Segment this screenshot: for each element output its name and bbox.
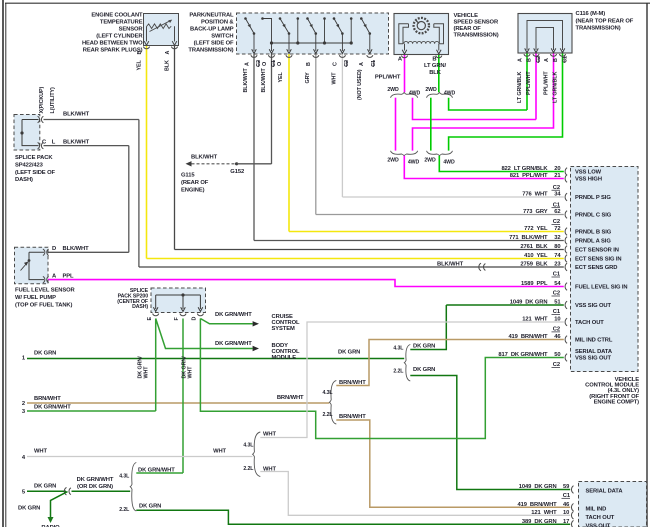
svg-text:VEHICLE: VEHICLE bbox=[454, 13, 479, 19]
svg-text:WHT: WHT bbox=[187, 366, 193, 379]
wire BLK/WHT vertical to fuel sensor bbox=[128, 146, 130, 253]
wire 817 DK GRN/WHT SP200 pin D to VSS SIG OUT pin 50 bbox=[200, 319, 563, 439]
svg-text:822 LT GRN/BLK: 822 LT GRN/BLK bbox=[501, 166, 548, 172]
wire 1049 DK GRN 2.2L to SERIAL DATA pin 59 bbox=[410, 376, 570, 490]
svg-text:L(UTILITY): L(UTILITY) bbox=[50, 87, 56, 114]
svg-text:PPL/WHT: PPL/WHT bbox=[375, 75, 401, 81]
connector pin D fuel sensor bbox=[43, 249, 49, 255]
coil VSS bbox=[404, 41, 439, 43]
switch blade PNP bbox=[334, 19, 342, 34]
wire 1 DK GRN from left bbox=[27, 358, 404, 360]
ECT lead pin A bbox=[174, 26, 176, 41]
svg-text:WHT: WHT bbox=[143, 366, 149, 379]
svg-text:PRNDL A SIG: PRNDL A SIG bbox=[575, 239, 611, 245]
svg-text:O: O bbox=[262, 62, 268, 66]
svg-text:DK GRN/WHT: DK GRN/WHT bbox=[215, 312, 252, 318]
brace 2WD/4WD split PPL/WHT bbox=[391, 93, 418, 98]
svg-text:DK GRN: DK GRN bbox=[413, 367, 435, 373]
pickup bracket right VSS bbox=[434, 24, 444, 44]
svg-text:2.2L: 2.2L bbox=[243, 466, 254, 472]
svg-text:771 BLK/WHT: 771 BLK/WHT bbox=[509, 235, 548, 241]
engine coolant temperature sensor box bbox=[144, 14, 179, 46]
svg-text:BRN/WHT: BRN/WHT bbox=[277, 395, 304, 401]
svg-text:DK GRN/WHT: DK GRN/WHT bbox=[215, 341, 252, 347]
svg-text:773 GRY: 773 GRY bbox=[523, 209, 548, 215]
svg-text:419 BRN/WHT: 419 BRN/WHT bbox=[518, 502, 558, 508]
wire BLK/WHT to fuel sensor pin D bbox=[48, 251, 129, 253]
wire 419 BRN/WHT 4.3L to MIL IND CTRL pin 46 bbox=[336, 340, 564, 386]
splice pack SP422/423 box bbox=[14, 115, 40, 151]
svg-text:L: L bbox=[52, 139, 56, 145]
wire 1049 DK GRN into VCM bbox=[446, 304, 564, 306]
pin terminal PNP bbox=[313, 55, 319, 57]
svg-text:BACK-UP LAMP: BACK-UP LAMP bbox=[190, 27, 234, 33]
svg-text:W/ FUEL PUMP: W/ FUEL PUMP bbox=[15, 295, 56, 301]
wire 1589 PPL fuel level signal to pin 54 bbox=[48, 280, 564, 287]
svg-text:62: 62 bbox=[554, 209, 560, 215]
svg-text:TRANSMISSION): TRANSMISSION) bbox=[576, 26, 621, 32]
svg-text:DK GRN/WHT: DK GRN/WHT bbox=[34, 404, 71, 410]
svg-text:A: A bbox=[52, 273, 57, 279]
pin A arrow ECT bbox=[172, 41, 177, 45]
svg-text:A: A bbox=[244, 62, 250, 66]
pin A terminal ECT bbox=[171, 47, 177, 49]
svg-text:WHT: WHT bbox=[213, 448, 226, 454]
svg-text:G115: G115 bbox=[181, 173, 195, 179]
wire 773 GRY to PRNDL C SIG pin 62 bbox=[316, 214, 564, 216]
pin terminal PNP bbox=[251, 55, 257, 57]
svg-text:D: D bbox=[52, 246, 56, 252]
svg-text:2.2L: 2.2L bbox=[119, 507, 130, 513]
page left border inner bbox=[5, 3, 7, 527]
svg-text:LT GRN/BLK: LT GRN/BLK bbox=[517, 72, 523, 103]
arrow to radio bbox=[48, 517, 54, 523]
wire LT GRN/BLK VSS pin B bbox=[438, 55, 440, 93]
wire BLK/WHT splice pack utility feed bbox=[44, 145, 129, 147]
splice pack SP200 box bbox=[151, 288, 206, 313]
splice on wire 5 bbox=[64, 487, 71, 495]
wire BLK/WHT vertical to ECT SENS GRD bbox=[138, 120, 140, 268]
svg-text:DK GRN: DK GRN bbox=[34, 351, 56, 357]
svg-text:50: 50 bbox=[554, 352, 560, 358]
svg-text:PARK/NEUTRAL: PARK/NEUTRAL bbox=[189, 13, 234, 19]
svg-text:389 DK GRN: 389 DK GRN bbox=[522, 519, 557, 525]
brace 4.3L/2.2L split DK GRN bbox=[404, 345, 410, 382]
instrument cluster module box bbox=[579, 482, 647, 527]
gear symbol VSS bbox=[414, 18, 429, 33]
wire BLK/WHT dashed to G152 bbox=[192, 163, 237, 165]
wire BLK/WHT G152 to switch wire bbox=[237, 163, 272, 165]
svg-text:1049 DK GRN: 1049 DK GRN bbox=[510, 300, 548, 306]
svg-text:817 DK GRN/WHT: 817 DK GRN/WHT bbox=[498, 352, 548, 358]
pin B arrow ECT bbox=[144, 41, 149, 45]
brace 4.3L/2.2L split WHT bbox=[253, 432, 261, 477]
wire DK GRN/WHT 4.3L up to SP200 pin F bbox=[136, 472, 183, 474]
jumper loop outer C116 bbox=[527, 21, 563, 51]
arrow to cruise control system bbox=[253, 321, 259, 326]
svg-text:1589 PPL: 1589 PPL bbox=[521, 281, 548, 287]
svg-text:F: F bbox=[174, 317, 180, 321]
pin B terminal ECT bbox=[143, 47, 149, 49]
wire 5 DK GRN from left bbox=[27, 490, 66, 492]
svg-text:776 WHT: 776 WHT bbox=[522, 192, 548, 198]
svg-text:B: B bbox=[306, 62, 312, 66]
junction G152 bbox=[235, 162, 238, 165]
svg-text:ECT SENSOR IN: ECT SENSOR IN bbox=[575, 248, 619, 254]
svg-text:CONTROL: CONTROL bbox=[272, 349, 301, 355]
svg-text:B: B bbox=[527, 58, 533, 62]
connector utility SP422/423 bbox=[38, 142, 44, 148]
wire BLK/WHT PNP pin O to G152 bbox=[271, 54, 273, 164]
svg-text:ECT SENS GRD: ECT SENS GRD bbox=[575, 265, 617, 271]
svg-text:ECT SENS SIG IN: ECT SENS SIG IN bbox=[575, 257, 622, 263]
wire BLK/WHT splice pack pickup feed bbox=[44, 119, 139, 121]
svg-text:TRANSMISSION): TRANSMISSION) bbox=[188, 48, 233, 54]
svg-text:(TOP OF FUEL TANK): (TOP OF FUEL TANK) bbox=[15, 302, 73, 308]
svg-text:(LEFT SIDE OF: (LEFT SIDE OF bbox=[194, 41, 234, 47]
svg-text:5: 5 bbox=[22, 490, 26, 496]
switch common terminal PNP pin O bbox=[261, 17, 264, 20]
svg-text:BLK/WHT: BLK/WHT bbox=[243, 68, 249, 93]
svg-text:4WD: 4WD bbox=[409, 91, 421, 97]
wiper arm fuel sensor bbox=[21, 263, 28, 271]
svg-text:TACH OUT: TACH OUT bbox=[586, 515, 615, 521]
connector pin A fuel sensor bbox=[43, 276, 49, 282]
svg-text:4.3L: 4.3L bbox=[393, 346, 404, 352]
svg-text:C: C bbox=[42, 139, 47, 145]
wire DK GRN branch to radio bbox=[51, 492, 68, 518]
svg-text:CRUISE: CRUISE bbox=[272, 314, 294, 320]
svg-text:21: 21 bbox=[554, 173, 561, 179]
wire WHT PNP pin C vertical bbox=[341, 54, 343, 197]
svg-text:TEMPERATURE: TEMPERATURE bbox=[100, 20, 143, 26]
svg-text:23: 23 bbox=[554, 262, 561, 268]
svg-text:HEAD BETWEEN TWO: HEAD BETWEEN TWO bbox=[82, 41, 143, 47]
svg-text:C: C bbox=[333, 62, 339, 66]
svg-text:20: 20 bbox=[554, 166, 560, 172]
bus bar PNP switch bbox=[272, 42, 352, 44]
svg-text:C2: C2 bbox=[536, 56, 542, 63]
svg-text:121 WHT: 121 WHT bbox=[522, 317, 548, 323]
wire 389 DK GRN 2.2L to VSS OUT pin 17 bbox=[136, 510, 570, 524]
svg-text:BLK/WHT: BLK/WHT bbox=[63, 112, 90, 118]
svg-text:821 PPL/WHT: 821 PPL/WHT bbox=[510, 173, 548, 179]
wire YEL PNP pin O vertical bbox=[288, 54, 290, 232]
wire 410 YEL to ECT SENS SIG IN pin 74 bbox=[147, 258, 564, 260]
wire 121 WHT 4.3L to TACH OUT pin 10 bbox=[260, 322, 564, 438]
svg-text:10: 10 bbox=[554, 317, 560, 323]
svg-text:DASH): DASH) bbox=[15, 177, 33, 183]
svg-text:ENGINE COMPT): ENGINE COMPT) bbox=[594, 400, 640, 406]
svg-text:MIL IND: MIL IND bbox=[586, 507, 607, 513]
pin terminal PNP bbox=[286, 55, 292, 57]
svg-text:(NOT USED): (NOT USED) bbox=[357, 69, 363, 100]
wire BLK/WHT PNP pin A vertical bbox=[253, 54, 255, 241]
svg-text:(REAR OF: (REAR OF bbox=[181, 180, 209, 186]
gear notch VSS bbox=[416, 21, 419, 24]
wire GRY PNP pin B vertical bbox=[315, 54, 317, 215]
svg-text:BLK/WHT: BLK/WHT bbox=[437, 261, 464, 267]
connector C116 box bbox=[518, 14, 572, 54]
svg-text:17: 17 bbox=[563, 519, 569, 525]
svg-text:PRNDL C SIG: PRNDL C SIG bbox=[575, 213, 612, 219]
svg-text:410 YEL: 410 YEL bbox=[524, 253, 548, 259]
svg-text:ENGINE): ENGINE) bbox=[181, 188, 205, 194]
svg-text:SWITCH: SWITCH bbox=[211, 34, 233, 40]
svg-text:SP422/423: SP422/423 bbox=[15, 162, 44, 168]
svg-text:A: A bbox=[359, 62, 365, 66]
junction SP422/423 bbox=[20, 131, 23, 134]
brace 2WD/4WD split LT GRN/BLK bbox=[427, 93, 453, 98]
connector pickup SP422/423 bbox=[38, 116, 44, 122]
wire PPL/WHT 2WD branch bbox=[395, 98, 397, 151]
pickup bracket left VSS bbox=[399, 24, 409, 44]
page top border bbox=[5, 2, 650, 4]
wire 2759 BLK to ECT SENS GRD pin 23 bbox=[139, 266, 564, 268]
svg-text:CONTROL: CONTROL bbox=[272, 320, 301, 326]
svg-text:2.2L: 2.2L bbox=[323, 412, 334, 418]
thermistor zigzag ECT bbox=[147, 24, 172, 29]
svg-text:46: 46 bbox=[563, 502, 570, 508]
svg-text:BLK/WHT: BLK/WHT bbox=[63, 246, 90, 252]
svg-text:FUEL LEVEL SIG IN: FUEL LEVEL SIG IN bbox=[575, 285, 628, 291]
wire LT GRN/BLK C116 pin A drop bbox=[526, 53, 528, 110]
wire DK GRN/WHT to cruise control bbox=[200, 319, 252, 324]
svg-text:SPEED SENSOR: SPEED SENSOR bbox=[454, 20, 499, 26]
pin terminal PNP bbox=[367, 55, 373, 57]
junction SP200 bbox=[181, 293, 184, 296]
svg-text:C116 (M-M): C116 (M-M) bbox=[576, 11, 606, 17]
svg-text:DK GRN: DK GRN bbox=[338, 350, 360, 356]
svg-text:BLK: BLK bbox=[429, 70, 442, 76]
wire 776 WHT to PRNDL P SIG pin 34 bbox=[342, 196, 563, 198]
bus riser PNP bbox=[350, 19, 352, 44]
svg-text:BLK/WHT: BLK/WHT bbox=[63, 139, 90, 145]
svg-text:LT GRN/: LT GRN/ bbox=[424, 63, 447, 69]
svg-text:(LEFT SIDE OF: (LEFT SIDE OF bbox=[15, 170, 55, 176]
svg-text:2759 BLK: 2759 BLK bbox=[520, 262, 548, 268]
switch blade PNP bbox=[280, 19, 289, 34]
vehicle speed sensor box bbox=[394, 14, 449, 55]
svg-text:A: A bbox=[165, 51, 171, 55]
svg-text:BRN/WHT: BRN/WHT bbox=[339, 414, 366, 420]
svg-text:(OR DK GRN): (OR DK GRN) bbox=[77, 484, 113, 490]
svg-text:B: B bbox=[432, 57, 436, 63]
svg-text:SYSTEM: SYSTEM bbox=[272, 326, 296, 332]
svg-text:PPL/WHT: PPL/WHT bbox=[543, 71, 549, 95]
VSS pin A lead bbox=[404, 44, 406, 51]
svg-text:59: 59 bbox=[563, 484, 570, 490]
sender element fuel level sensor bbox=[29, 252, 44, 279]
svg-text:SERIAL DATA: SERIAL DATA bbox=[575, 349, 613, 355]
wire 772 YEL to PRNDL B SIG pin 72 bbox=[289, 231, 564, 233]
svg-text:VSS HIGH: VSS HIGH bbox=[575, 177, 602, 183]
svg-text:DASH): DASH) bbox=[132, 304, 148, 310]
svg-text:4WD: 4WD bbox=[408, 160, 420, 166]
svg-text:FUEL LEVEL SENSOR: FUEL LEVEL SENSOR bbox=[15, 288, 76, 294]
svg-text:VSS OUT: VSS OUT bbox=[586, 524, 611, 527]
connector pin F SP200 bbox=[180, 314, 186, 316]
svg-text:46: 46 bbox=[554, 334, 561, 340]
wire 2761 BLK to ECT SENSOR IN pin 80 bbox=[175, 249, 564, 251]
svg-text:GRY: GRY bbox=[305, 72, 311, 84]
svg-text:X(PICKUP): X(PICKUP) bbox=[39, 87, 45, 114]
page right border bbox=[646, 3, 648, 527]
svg-text:2.2L: 2.2L bbox=[393, 368, 404, 374]
svg-text:4WD: 4WD bbox=[443, 160, 455, 166]
arrow to body control module bbox=[253, 346, 259, 351]
switch blade PNP bbox=[361, 19, 370, 34]
bus junction PNP bbox=[270, 41, 273, 44]
fuel level sensor box bbox=[15, 247, 49, 283]
svg-text:ENGINE COOLANT: ENGINE COOLANT bbox=[91, 13, 143, 19]
svg-text:WHT: WHT bbox=[332, 72, 338, 85]
bus riser PNP bbox=[297, 19, 299, 44]
svg-text:G152: G152 bbox=[230, 169, 244, 175]
svg-text:VSS SIG OUT: VSS SIG OUT bbox=[575, 303, 612, 309]
svg-text:4.3L: 4.3L bbox=[323, 390, 334, 396]
wire 822 LT GRN/BLK to VSS LOW pin 20 bbox=[439, 156, 564, 172]
svg-text:BRN/WHT: BRN/WHT bbox=[34, 396, 61, 402]
wire DK GRN/WHT SP200 pin F vertical bbox=[182, 319, 184, 474]
wiper contact fuel sensor bbox=[28, 259, 31, 262]
svg-text:VSS SIG OUT: VSS SIG OUT bbox=[575, 356, 612, 362]
wire 419 BRN/WHT 2.2L to MIL IND pin 46 bbox=[336, 420, 570, 507]
svg-text:80: 80 bbox=[554, 244, 560, 250]
thermistor arrow ECT bbox=[150, 21, 171, 32]
svg-text:1049 DK GRN: 1049 DK GRN bbox=[519, 484, 557, 490]
svg-text:2WD: 2WD bbox=[387, 158, 399, 164]
svg-text:TACH OUT: TACH OUT bbox=[575, 320, 604, 326]
pin B terminal VSS bbox=[436, 56, 442, 58]
svg-text:3: 3 bbox=[22, 409, 26, 415]
svg-text:A: A bbox=[544, 58, 550, 62]
jumper loop inner C116 bbox=[536, 28, 554, 51]
wire PPL/WHT C116 pin B drop bbox=[535, 53, 537, 120]
brace 4.3L/2.2L split BRN/WHT bbox=[329, 381, 336, 425]
page left border outer bbox=[2, 0, 4, 527]
VSS pin B lead bbox=[438, 44, 440, 51]
svg-text:A: A bbox=[518, 58, 524, 62]
svg-text:2: 2 bbox=[22, 401, 25, 407]
svg-text:C1: C1 bbox=[371, 60, 377, 67]
wire DK GRN/WHT to body control module bbox=[156, 319, 253, 349]
wire 3 DK GRN/WHT from left bbox=[27, 410, 156, 412]
svg-text:4.3L: 4.3L bbox=[119, 473, 130, 479]
switch blade PNP bbox=[308, 19, 316, 34]
svg-text:72: 72 bbox=[554, 226, 560, 232]
svg-text:10: 10 bbox=[563, 510, 569, 516]
svg-text:74: 74 bbox=[554, 253, 561, 259]
wire PPL/WHT 4WD branch to C116 pin B bbox=[413, 98, 537, 120]
wire LT GRN/BLK 2WD branch bbox=[430, 98, 432, 151]
wire 821 PPL/WHT to VSS HIGH pin 21 bbox=[404, 156, 564, 179]
wire 2 BRN/WHT from left bbox=[27, 402, 329, 404]
splice bus SP200 bbox=[156, 295, 201, 309]
brace 2WD/4WD merge LT GRN/BLK bbox=[427, 151, 453, 156]
svg-text:O: O bbox=[277, 62, 283, 66]
svg-text:DK GRN: DK GRN bbox=[18, 506, 40, 512]
wire 1049 DK GRN 4.3L to VSS SIG OUT pin 51 bbox=[410, 305, 446, 350]
svg-text:DK GRN: DK GRN bbox=[139, 504, 161, 510]
ground G115 arrow bbox=[186, 161, 192, 166]
pin A terminal VSS bbox=[401, 56, 407, 58]
svg-text:BLK: BLK bbox=[164, 60, 170, 71]
svg-text:E: E bbox=[147, 317, 153, 321]
svg-text:DK GRN: DK GRN bbox=[413, 344, 435, 350]
svg-text:32: 32 bbox=[554, 235, 560, 241]
svg-text:1: 1 bbox=[22, 356, 26, 362]
svg-text:YEL: YEL bbox=[136, 60, 142, 71]
wire LT GRN/BLK return from C116 pin B bbox=[449, 53, 563, 151]
svg-text:B: B bbox=[553, 58, 559, 62]
svg-text:2761 BLK: 2761 BLK bbox=[520, 244, 548, 250]
svg-text:REAR SPARK PLUGS): REAR SPARK PLUGS) bbox=[83, 48, 143, 54]
brace 2WD/4WD merge PPL/WHT bbox=[391, 151, 418, 156]
wire LT GRN/BLK 4WD branch to C116 pin A bbox=[449, 98, 527, 110]
thermistor arrowhead bbox=[168, 20, 172, 23]
wire 5 DK GRN to brace bbox=[72, 490, 131, 492]
wire DK GRN/WHT SP200 pin E vertical bbox=[155, 319, 157, 412]
svg-text:WHT: WHT bbox=[34, 449, 47, 455]
svg-text:TRANSMISSION): TRANSMISSION) bbox=[454, 33, 499, 39]
svg-text:2WD: 2WD bbox=[424, 158, 436, 164]
svg-text:POSITION &: POSITION & bbox=[201, 20, 234, 26]
svg-text:LT GRN/BLK: LT GRN/BLK bbox=[552, 72, 558, 103]
wire 771 BLK/WHT to PRNDL A SIG pin 32 bbox=[254, 240, 564, 242]
connector pin D SP200 bbox=[197, 314, 203, 316]
svg-text:772 YEL: 772 YEL bbox=[524, 226, 548, 232]
svg-text:YEL: YEL bbox=[278, 72, 284, 83]
svg-text:51: 51 bbox=[554, 300, 561, 306]
svg-text:419 BRN/WHT: 419 BRN/WHT bbox=[508, 334, 548, 340]
svg-text:DK GRN/WHT: DK GRN/WHT bbox=[77, 477, 114, 483]
wiper arrowhead fuel sensor bbox=[24, 262, 28, 266]
svg-text:SENSOR: SENSOR bbox=[119, 27, 144, 33]
brace 4.3L/2.2L split wire 5 bbox=[130, 463, 136, 512]
splice bus SP422/423 bbox=[22, 120, 39, 146]
svg-text:PRNDL P SIG: PRNDL P SIG bbox=[575, 195, 611, 201]
splice on ECT SENS GRD wire bbox=[479, 263, 486, 271]
svg-text:BODY: BODY bbox=[272, 343, 289, 349]
svg-text:121 WHT: 121 WHT bbox=[531, 510, 557, 516]
bus riser PNP bbox=[324, 19, 326, 44]
svg-text:4: 4 bbox=[22, 455, 26, 461]
switch blade PNP bbox=[246, 19, 255, 34]
svg-text:PPL/WHT: PPL/WHT bbox=[526, 71, 532, 95]
svg-text:PPL: PPL bbox=[63, 273, 75, 279]
ECT lead pin B bbox=[146, 27, 148, 42]
svg-text:D: D bbox=[192, 317, 198, 321]
svg-text:(REAR OF: (REAR OF bbox=[454, 26, 482, 32]
svg-text:54: 54 bbox=[554, 281, 561, 287]
svg-text:2WD: 2WD bbox=[425, 87, 437, 93]
svg-text:PRNDL B SIG: PRNDL B SIG bbox=[575, 230, 612, 236]
svg-text:(LEFT CYLINDER: (LEFT CYLINDER bbox=[96, 34, 143, 40]
svg-text:DK GRN: DK GRN bbox=[34, 484, 56, 490]
svg-text:MIL IND CTRL: MIL IND CTRL bbox=[575, 338, 613, 344]
svg-text:SERIAL DATA: SERIAL DATA bbox=[586, 488, 624, 494]
svg-text:VSS LOW: VSS LOW bbox=[575, 170, 602, 176]
wire YEL from ECT pin B vertical bbox=[146, 46, 148, 259]
connector pin E SP200 bbox=[153, 314, 159, 316]
vehicle control module box bbox=[571, 167, 639, 372]
wire 4 WHT from left bbox=[27, 456, 253, 458]
svg-text:34: 34 bbox=[554, 192, 561, 198]
svg-text:SPLICE PACK: SPLICE PACK bbox=[15, 155, 53, 161]
pin terminal PNP bbox=[268, 55, 274, 57]
svg-text:C2: C2 bbox=[344, 60, 350, 67]
